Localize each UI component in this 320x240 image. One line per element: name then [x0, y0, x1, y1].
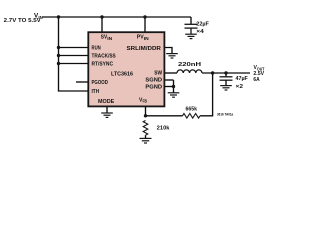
svg-text:MODE: MODE — [98, 99, 114, 105]
wire 47uF cap stub — [225, 73, 227, 77]
svg-text:2.7V TO 5.5V: 2.7V TO 5.5V — [4, 18, 41, 24]
wire PGOOD stub — [76, 81, 88, 83]
wire VFB node to 665k — [146, 115, 183, 117]
svg-text:6A: 6A — [253, 77, 259, 83]
wire SGND/PGND vertical to ground — [173, 80, 175, 93]
wire VFB pin drop — [145, 106, 147, 116]
ground MODE — [101, 113, 113, 117]
label VIN — [34, 14, 43, 20]
svg-text:IN: IN — [107, 36, 112, 41]
capacitor C2 47uF plates — [220, 76, 233, 78]
svg-text:TRACK/SS: TRACK/SS — [92, 54, 116, 60]
wire inductor to VOUT end — [202, 72, 250, 74]
wire RUN pin — [59, 47, 89, 49]
svg-text:665k: 665k — [186, 107, 198, 113]
wire TRACK/SS pin — [59, 55, 89, 57]
svg-text:LTC3616: LTC3616 — [111, 72, 133, 78]
svg-text:FB: FB — [143, 99, 148, 104]
svg-text:SW: SW — [154, 70, 162, 76]
pin label VFB — [139, 97, 147, 103]
ground 210k — [140, 138, 152, 143]
wire RT/SYNC pin — [59, 63, 89, 65]
svg-text:22µF: 22µF — [196, 22, 209, 28]
wire SGND stub — [164, 79, 173, 81]
resistor R1 665k — [183, 114, 200, 119]
svg-text:3616 TA01a: 3616 TA01a — [217, 113, 233, 117]
ground under 22uF — [185, 34, 197, 38]
svg-text:PGOOD: PGOOD — [92, 80, 108, 86]
wire PVIN drop — [144, 17, 146, 32]
svg-text:47µF: 47µF — [236, 76, 249, 82]
node junction 47uF — [224, 71, 227, 74]
inductor L1 220nH — [177, 70, 202, 73]
wire MODE drop — [106, 106, 108, 113]
ground SGND/PGND — [168, 93, 180, 97]
node junction SGND/PGND — [172, 85, 175, 88]
svg-text:RUN: RUN — [92, 46, 101, 52]
wire left VIN rail down to ITH corner — [59, 17, 89, 91]
wire 210k to ground — [145, 135, 147, 138]
svg-text:×4: ×4 — [196, 29, 204, 35]
wire 47uF cap to ground — [225, 80, 227, 85]
ground SRLIM/DDR — [166, 54, 178, 58]
svg-text:ITH: ITH — [92, 89, 100, 95]
label VOUT — [254, 65, 265, 71]
svg-text:SGND: SGND — [145, 78, 162, 84]
svg-text:×2: ×2 — [236, 84, 244, 90]
capacitor C1 22uF plates — [185, 23, 198, 25]
resistor R2 210k — [143, 121, 148, 136]
node junction VFB — [144, 114, 147, 117]
node junction PVIN — [143, 15, 146, 18]
node junction top rail / left rail — [57, 15, 60, 18]
ground 47uF — [220, 86, 232, 90]
node junction SVIN — [100, 15, 103, 18]
svg-text:PGND: PGND — [145, 85, 162, 91]
wire SW to inductor — [164, 72, 177, 74]
node junction RT/SYNC — [57, 62, 60, 65]
svg-text:IN: IN — [144, 36, 149, 41]
pin label PVIN — [137, 35, 149, 41]
node junction SW/feedback — [211, 71, 214, 74]
wire PGND stub — [164, 86, 173, 88]
svg-text:SRLIM/DDR: SRLIM/DDR — [127, 46, 161, 52]
svg-text:220nH: 220nH — [178, 62, 201, 68]
wire VIN top rail — [43, 16, 192, 18]
node junction TRACK/SS — [57, 54, 60, 57]
wire feedback branch vertical — [200, 73, 213, 116]
wire SVIN drop — [101, 17, 103, 32]
svg-text:RT/SYNC: RT/SYNC — [92, 62, 114, 68]
wire 22uF cap stub — [190, 17, 192, 24]
node junction RUN — [57, 46, 60, 49]
wire SRLIM/DDR to ground — [164, 48, 172, 54]
pin label SVIN — [101, 35, 112, 41]
svg-text:210k: 210k — [157, 125, 171, 131]
op-amp ic U1 LTC3616 body — [88, 32, 164, 106]
